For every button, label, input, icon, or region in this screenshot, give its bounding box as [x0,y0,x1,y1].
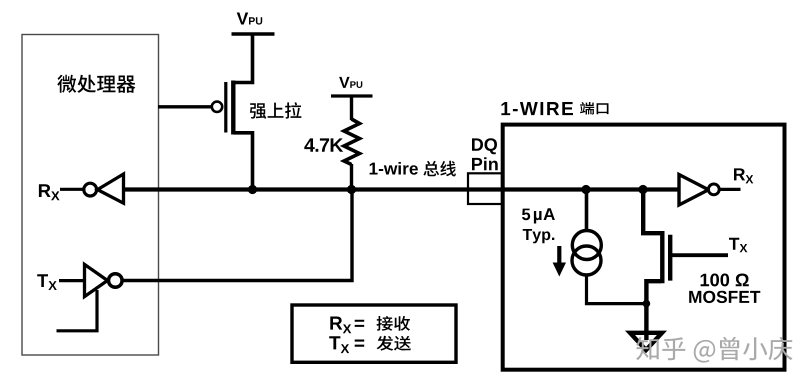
legend box [292,305,456,362]
wire bus to current source [585,190,589,232]
junction dot Q1-bus [248,185,257,194]
legend label Tx = [329,336,364,353]
transistor Q1 gate bar [224,82,227,133]
Tx stub wire [57,290,98,331]
wire bus to Q2 drain [643,190,661,234]
label VPU 2 [339,77,362,88]
current direction arrow [557,246,561,264]
label 1-WIRE [501,102,573,115]
junction dot bus-current source [581,185,590,194]
label 端口 [580,102,609,115]
label Rx left [39,184,60,200]
wire Q1 source to bus [234,133,253,190]
label 微处理器 [57,75,135,93]
ground symbol [630,333,662,350]
legend label 接收 [377,316,411,331]
watermark 知乎 @曾小庆 [636,337,792,363]
Vpu supply bar 2 [331,94,373,97]
Rx inverter triangle (pointing left) [98,174,124,203]
label Tx right [729,238,747,253]
label DQ [472,138,497,154]
wire Q1 gate to microprocessor [158,105,212,108]
label Rx right [734,168,753,183]
wire Tx output to bus [122,190,352,281]
legend label Rx = [330,317,364,334]
legend label 发送 [377,336,412,351]
current source I1 circles [572,231,601,260]
wire Tx label to inverter [59,279,86,282]
transistor Q2 channel bar [660,231,664,283]
Vpu supply bar 1 [232,32,275,36]
wire Vpu2 to resistor [350,96,353,120]
main 1-wire bus wire [121,187,680,191]
Rx buffer bubble [708,184,719,195]
wire Rx label to inverter [60,188,85,191]
transistor Q2 gate bar [668,235,672,281]
Tx inverter triangle (pointing right) [85,264,108,296]
transistor Q1 channel bar [231,81,235,135]
label Tx left [37,274,57,290]
label 5 uA [522,208,555,223]
junction dot ground rail [643,300,651,308]
transistor Q2 gate lead [670,253,728,257]
Rx inverter bubble (left) [84,183,97,196]
resistor R 4.7K zigzag [344,119,360,165]
label 100 ohm [701,274,749,287]
wire Vpu1 to Q1 drain [234,34,253,83]
wire current source to ground rail [587,275,647,304]
wire buffer to Rx label [719,188,741,191]
label VPU 1 [237,13,263,25]
Rx buffer triangle [679,175,709,206]
junction dot R-bus [347,185,356,194]
wire resistor to bus [350,164,353,190]
DQ pin box [468,173,502,204]
transistor Q1 gate bubble [212,102,222,112]
label 4.7K [304,138,343,151]
wire Q2 source to ground [646,281,661,340]
1-WIRE port box [503,125,785,370]
label 强上拉 [250,102,302,119]
label MOSFET [689,291,760,303]
label 总线 [423,161,456,177]
junction dot bus-Q2 [638,185,647,194]
label Typ. [523,229,555,243]
label 1-wire [370,162,418,175]
microprocessor box [22,35,159,356]
Tx inverter bubble [109,274,123,288]
label Pin [472,157,498,170]
